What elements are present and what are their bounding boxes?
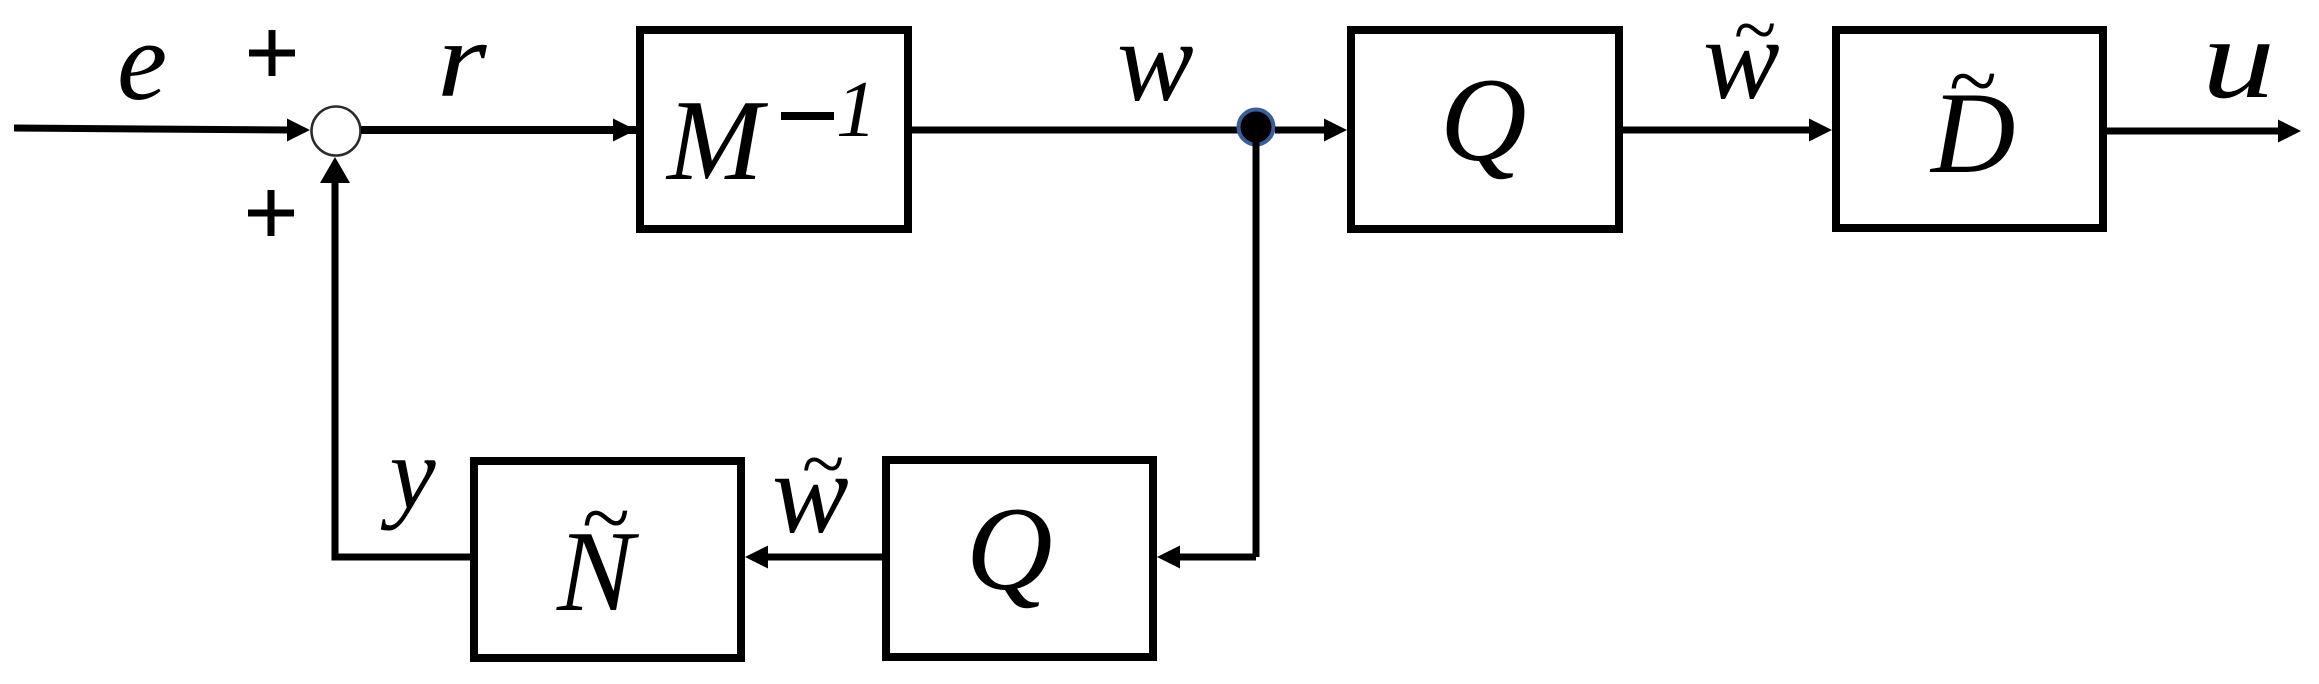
- svg-text:Q: Q: [966, 482, 1053, 615]
- label e: [117, 0, 167, 124]
- wire N to corner: [332, 554, 471, 561]
- label w: [1117, 0, 1194, 125]
- label y: [381, 416, 437, 531]
- label r: [437, 0, 488, 120]
- label w tilde bottom: [772, 420, 849, 557]
- block D tilde: [1836, 30, 2103, 228]
- svg-text:y: y: [381, 416, 437, 531]
- svg-text:w: w: [1117, 0, 1194, 125]
- wire to bottom Q: [1157, 546, 1256, 569]
- svg-text:r: r: [437, 0, 488, 120]
- label plus bottom: [248, 190, 294, 236]
- wire node to Q: [1275, 119, 1347, 142]
- svg-text:e: e: [117, 0, 167, 124]
- svg-text:1: 1: [836, 64, 877, 154]
- wire node down: [1253, 130, 1260, 557]
- wire Q to D: [1623, 119, 1832, 142]
- label u: [2202, 0, 2275, 122]
- label w tilde top: [1703, 0, 1780, 123]
- block N tilde: [474, 461, 741, 658]
- wire Q to N: [745, 546, 882, 569]
- wire input e: [14, 119, 310, 142]
- svg-text:u: u: [2202, 0, 2275, 122]
- wire output u: [2107, 120, 2301, 143]
- wire w: [912, 127, 1256, 134]
- svg-text:~: ~: [1948, 33, 1996, 130]
- block Q bottom: [886, 460, 1153, 657]
- block M^-1: [640, 30, 908, 229]
- node summing junction: [312, 107, 361, 156]
- node w junction: [1239, 110, 1274, 145]
- svg-text:Q: Q: [1440, 53, 1527, 186]
- svg-text:~: ~: [581, 470, 629, 567]
- svg-text:~: ~: [801, 420, 843, 507]
- svg-text:M: M: [665, 77, 769, 204]
- block Q top: [1351, 30, 1619, 229]
- svg-text:~: ~: [1733, 0, 1775, 73]
- label plus top: [249, 30, 295, 76]
- wire r: [361, 119, 636, 142]
- wire corner up to summing junction: [320, 157, 350, 561]
